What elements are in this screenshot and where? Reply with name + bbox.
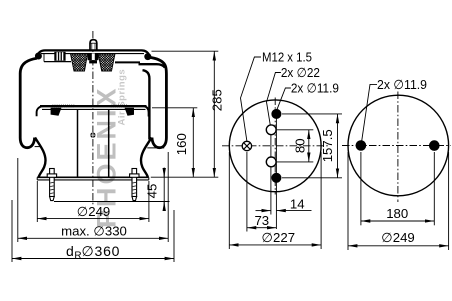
ext line piston plate level <box>152 107 197 109</box>
center lines bottom view <box>342 145 451 147</box>
dim 180 <box>361 220 398 222</box>
svg-text:∅249: ∅249 <box>77 204 111 219</box>
piston skirt right <box>141 138 152 178</box>
piston skirt left <box>35 138 46 178</box>
bottom plate <box>37 176 149 178</box>
bellows outer wall right <box>148 57 166 148</box>
svg-text:157.5: 157.5 <box>320 129 335 162</box>
ext lines dia249 bottom view <box>347 152 349 250</box>
ext line bolt tip level <box>54 201 170 203</box>
piston tube right <box>108 109 110 176</box>
top view circle dia227 <box>229 100 321 192</box>
svg-text:285: 285 <box>209 89 224 111</box>
air fitting M12 symbol <box>242 141 251 150</box>
svg-text:2x ∅11.9: 2x ∅11.9 <box>377 77 427 92</box>
svg-text:Air Springs: Air Springs <box>117 69 128 126</box>
clamp wedge left <box>51 108 62 116</box>
dim 160 <box>192 108 194 142</box>
ext lines dim80 <box>277 129 313 131</box>
ext lines dia360 <box>11 200 13 262</box>
svg-text:14: 14 <box>290 196 305 211</box>
bottom view circle dia249 <box>348 95 449 196</box>
piston plate hatch ticks left <box>52 105 74 108</box>
ext lines dia227 <box>228 152 230 249</box>
ext line fitting vertical <box>246 152 248 232</box>
bolt right <box>130 169 139 201</box>
bellows lip left <box>35 146 42 148</box>
svg-text:M12 x 1.5: M12 x 1.5 <box>262 50 312 65</box>
bolt top (filled) <box>271 109 281 119</box>
center lines top view <box>222 145 329 147</box>
bolt left <box>47 169 56 201</box>
bolt bottom (filled) <box>271 173 281 183</box>
ext lines dim180 <box>360 152 362 225</box>
bolt right (filled) <box>429 140 440 151</box>
bellows inner fold right <box>143 70 150 139</box>
ext lines dia249 <box>36 181 38 222</box>
dim 285 <box>213 51 215 113</box>
svg-text:d: d <box>66 243 74 259</box>
svg-text:∅360: ∅360 <box>82 243 121 259</box>
stud M12 top <box>90 40 97 51</box>
dim 157.5 <box>337 114 339 146</box>
bellows outer wall left <box>20 58 37 148</box>
svg-text:80: 80 <box>292 138 307 153</box>
dim 45 <box>163 168 165 178</box>
rubber block right (hatched) <box>98 54 115 71</box>
bead ring left <box>35 53 42 60</box>
dim dia249 bottom <box>37 218 93 220</box>
svg-text:73: 73 <box>254 213 269 228</box>
dim dia227 <box>229 244 275 246</box>
svg-text:∅249: ∅249 <box>381 230 415 245</box>
center target mark <box>90 132 95 137</box>
svg-text:2x ∅22: 2x ∅22 <box>281 65 320 80</box>
svg-text:45: 45 <box>144 184 159 199</box>
svg-text:180: 180 <box>386 206 408 221</box>
piston plate hatch ticks right <box>111 105 127 108</box>
stud nut below plate <box>88 53 99 60</box>
ext line top plate level <box>152 50 219 52</box>
dim 73 <box>247 227 262 229</box>
piston top plate <box>40 105 147 107</box>
hole dia22 top <box>266 125 276 135</box>
hole line vertical <box>270 126 272 215</box>
ext lines dia330 <box>17 158 19 242</box>
svg-text:max. ∅330: max. ∅330 <box>61 223 127 238</box>
bead ring right <box>144 53 151 60</box>
rubber block left (hatched) <box>71 54 88 71</box>
dim 14 <box>256 210 271 212</box>
bolt line vertical <box>275 110 277 230</box>
ext lines dim157.5 <box>282 113 342 115</box>
bolt left (filled) <box>356 140 367 151</box>
ext line bottom plate level <box>151 176 219 178</box>
dim max dia330 <box>18 237 93 239</box>
plate under-band left <box>44 61 71 63</box>
top plate <box>37 50 150 57</box>
bellows lip right <box>147 147 164 149</box>
dim dia249 bottom view <box>348 245 398 247</box>
svg-text:2x ∅11.9: 2x ∅11.9 <box>291 81 339 96</box>
svg-text:∅227: ∅227 <box>262 230 296 245</box>
clamp wedge right <box>125 108 135 116</box>
dim dR dia360 <box>12 258 93 260</box>
dim 80 <box>308 130 310 146</box>
striped valve box <box>54 52 65 61</box>
plate under-band right <box>115 61 140 63</box>
center line side view <box>92 31 94 206</box>
piston tube left <box>77 109 79 176</box>
hole dia22 bottom <box>266 157 276 167</box>
svg-text:160: 160 <box>174 133 189 155</box>
